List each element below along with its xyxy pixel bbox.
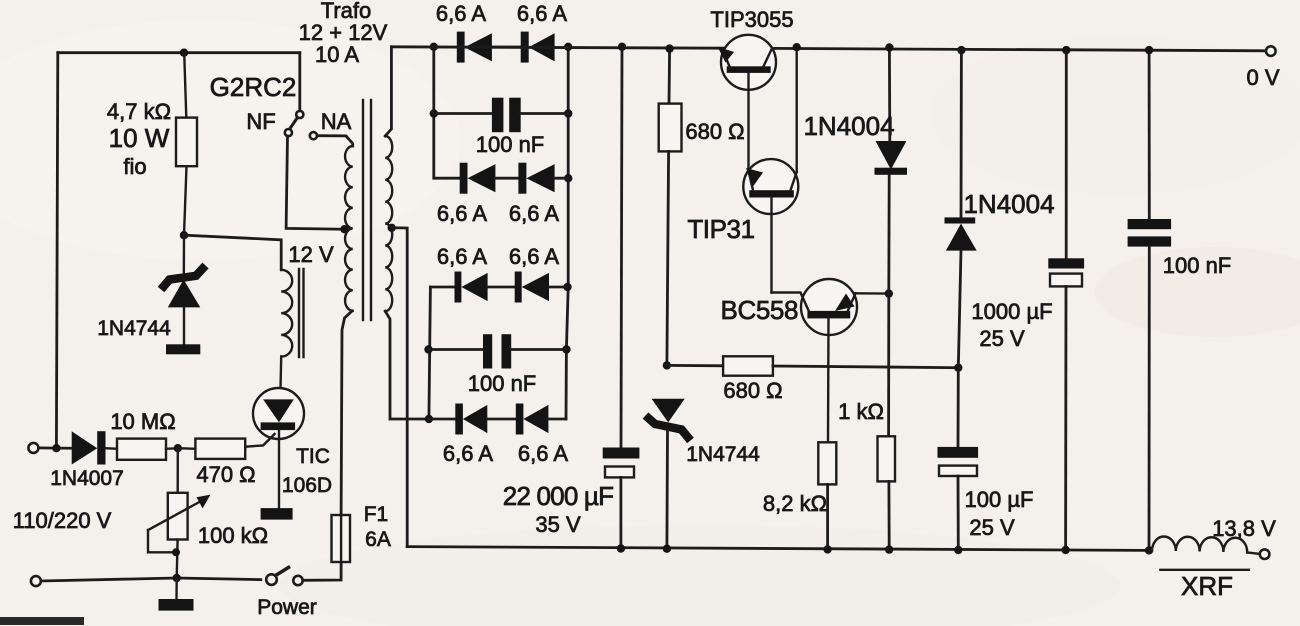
wire: secondary bottom to rectifier row 4 — [385, 311, 429, 419]
diode row 3 left: D7 6,6 A — [430, 272, 487, 303]
node: junction R2 / R3 / pot — [174, 444, 182, 452]
svg-text:1 kΩ: 1 kΩ — [838, 399, 884, 424]
relay NF contact — [285, 129, 292, 136]
value label C3: 22 000 uF / 35 V — [503, 481, 613, 537]
node: R6 on bottom rail — [885, 545, 893, 553]
svg-text:12 V: 12 V — [288, 242, 334, 267]
svg-text:1N4004: 1N4004 — [803, 111, 894, 141]
svg-text:10 W: 10 W — [109, 123, 170, 153]
node: secondary centre tap — [388, 224, 396, 232]
node: pot bottom on rail — [173, 574, 181, 582]
resistor R3 470 Ohm — [178, 439, 245, 459]
node: BC558 emitter / 1k / 1N4004 junction — [885, 289, 893, 297]
diode D1 1N4007 — [72, 431, 117, 464]
wire row 3 mid — [488, 286, 515, 289]
wire: 0V top rail (left part up to TIP3055) — [391, 47, 724, 48]
wire row 2 right end — [555, 177, 569, 180]
wire row 4 mid — [487, 418, 516, 421]
transformer T1 core — [363, 100, 371, 320]
capacitor C3 22 000 uF 35 V — [603, 43, 640, 553]
svg-text:G2RC2: G2RC2 — [210, 72, 297, 102]
label Q1: TIC 106D — [282, 445, 332, 497]
diode row 2 left: D5 6,6 A — [460, 163, 496, 194]
wire: rectifier right bus rows 1-4 — [566, 47, 568, 419]
svg-text:680 Ω: 680 Ω — [723, 378, 782, 403]
node: right bus at row 3 — [563, 283, 571, 291]
svg-text:1N4004: 1N4004 — [963, 189, 1054, 219]
transistor Q2 TIP3055 — [718, 35, 777, 170]
wire: rectifier left bus rows 3-4 — [429, 287, 431, 419]
node: right bus at row 2 — [564, 174, 572, 182]
resistor R4 680 Ohm (vertical) — [659, 44, 682, 365]
svg-text:22 000 µF: 22 000 µF — [503, 481, 613, 511]
svg-text:6,6 A: 6,6 A — [509, 244, 559, 269]
svg-text:110/220 V: 110/220 V — [13, 508, 112, 533]
relay NA contact — [310, 132, 317, 139]
resistor R7 8,2 kOhm — [818, 442, 836, 549]
svg-text:1000 µF: 1000 µF — [971, 299, 1052, 324]
svg-text:F1: F1 — [364, 503, 389, 526]
wire: bottom rail left — [41, 578, 261, 581]
relay lever arm — [290, 118, 298, 130]
wire: left vertical from top rail to mains input row — [56, 53, 57, 449]
svg-text:680 Ω: 680 Ω — [685, 119, 744, 144]
fuse F1 6A — [332, 311, 353, 562]
ground bar under SCR cathode — [261, 508, 293, 519]
svg-text:6,6 A: 6,6 A — [443, 441, 493, 466]
transistor Q4 BC558 — [772, 279, 889, 442]
svg-text:6A: 6A — [365, 528, 391, 551]
wire: NF contact down to primary tap — [286, 136, 344, 229]
svg-text:fio: fio — [123, 154, 146, 179]
resistor R2 10 MOhm — [117, 439, 178, 460]
node: left bus on 0V rail — [430, 43, 438, 51]
capacitor C5 100 uF 25 V — [938, 368, 979, 555]
svg-text:4,7 kΩ: 4,7 kΩ — [107, 99, 171, 124]
capacitor C6 100 nF (output) — [1128, 46, 1172, 555]
resistor R5 680 Ohm (horizontal) — [667, 356, 958, 375]
svg-text:470 Ω: 470 Ω — [196, 462, 255, 487]
svg-text:1N4744: 1N4744 — [686, 443, 760, 466]
svg-text:NA: NA — [321, 109, 352, 134]
wire: 13,8V bottom rail — [407, 547, 1146, 551]
value label C4: 1000 uF / 25 V — [971, 299, 1052, 351]
inductor L1 XRF — [1152, 537, 1259, 570]
svg-text:Power: Power — [257, 596, 317, 619]
svg-text:1N4744: 1N4744 — [97, 317, 171, 340]
wire: centre tap down to output common rail — [392, 228, 408, 547]
node: R5 wire / 100uF line junction — [954, 364, 962, 372]
wire row 3 right end — [549, 286, 568, 289]
resistor R1 4,7 kOhm 10 W — [176, 53, 197, 236]
svg-text:100 nF: 100 nF — [468, 371, 537, 396]
capacitor C1 100 nF across rows 1-2 — [434, 98, 568, 133]
zener diode D13 1N4744 (right) — [646, 399, 691, 549]
scan edge artifact bottom-left — [0, 617, 84, 625]
zener diode D2 1N4744 (left) — [161, 235, 206, 344]
diode row 1 left: D3 6,6 A — [457, 32, 492, 63]
input terminal lower — [31, 576, 41, 586]
node: D13 on bottom rail — [663, 545, 671, 553]
svg-text:6,6 A: 6,6 A — [436, 1, 486, 26]
node: R7 on bottom rail — [823, 545, 831, 553]
svg-text:1N4007: 1N4007 — [50, 467, 124, 490]
svg-text:100 kΩ: 100 kΩ — [198, 523, 268, 548]
transformer T1 primary winding — [345, 146, 353, 311]
wire: rectifier left bus rows 1-2 — [434, 47, 460, 178]
diode D12 1N4004 (lower, on 100uF line) — [945, 46, 977, 368]
value label C5: 100 uF / 25 V — [965, 487, 1034, 540]
svg-text:100 µF: 100 µF — [965, 487, 1034, 512]
svg-text:25 V: 25 V — [969, 515, 1015, 540]
label transformer: Trafo / 12 + 12V / 10 A — [299, 0, 388, 67]
svg-text:6,6 A: 6,6 A — [437, 244, 487, 269]
wire: relay coil to SCR anode — [279, 357, 282, 389]
node: junction left vertical / input row — [52, 444, 60, 452]
svg-text:NF: NF — [246, 109, 275, 134]
relay contact pivot circle — [296, 111, 303, 118]
node: Q3 collector on 0V rail — [793, 43, 801, 51]
value label R1: 4,7 kOhm / 10 W / fio — [107, 99, 171, 179]
potentiometer P1 100 kOhm — [148, 448, 211, 578]
diode row 4 left: D9 6,6 A — [429, 404, 487, 435]
diode row 4 right: D10 6,6 A — [516, 404, 549, 435]
diode row 1 right: D4 6,6 A — [521, 32, 555, 63]
node: left bus at C2 branch — [424, 345, 432, 353]
label F1 / 6A — [364, 503, 391, 551]
ground bar below pot node — [159, 578, 194, 611]
svg-text:35 V: 35 V — [535, 512, 581, 537]
node: right bus at C1 branch — [564, 109, 572, 117]
svg-text:10 MΩ: 10 MΩ — [110, 409, 175, 434]
svg-text:TIC: TIC — [296, 445, 330, 468]
wire: top-left rail from left corner to relay drop — [58, 51, 300, 54]
relay coil (12 V) — [281, 269, 303, 357]
svg-text:TIP31: TIP31 — [687, 214, 754, 244]
svg-text:106D: 106D — [282, 474, 332, 497]
diode D11 1N4004 (upper) — [875, 43, 908, 293]
resistor R6 1 kOhm — [878, 294, 896, 550]
wire: top rail down to relay pivot — [298, 53, 301, 111]
svg-text:6,6 A: 6,6 A — [517, 1, 567, 26]
svg-text:6,6 A: 6,6 A — [509, 201, 559, 226]
svg-text:13,8 V: 13,8 V — [1212, 516, 1276, 541]
SCR Q1 TIC106D — [245, 388, 304, 508]
svg-text:10 A: 10 A — [315, 42, 359, 67]
wire: 0V top rail (right part) — [772, 48, 1266, 50]
node: junction R1 / zener / relay coil — [180, 231, 188, 239]
wire: NA contact to primary top — [317, 136, 353, 146]
node: R4 / zener D13 / R5 wire — [663, 361, 671, 369]
node: pot wiper tie — [172, 548, 180, 556]
svg-text:6,6 A: 6,6 A — [437, 201, 487, 226]
ground bar under zener D2 — [166, 344, 200, 354]
svg-text:6,6 A: 6,6 A — [518, 441, 568, 466]
wire row 2 mid — [495, 177, 518, 180]
svg-text:100 nF: 100 nF — [476, 132, 545, 157]
svg-text:TIP3055: TIP3055 — [710, 7, 793, 32]
node: left bus at row 4 / secondary bottom — [425, 415, 433, 423]
wire row 4 right end up to bus — [548, 418, 566, 421]
switch S1 Power — [266, 562, 341, 585]
svg-text:25 V: 25 V — [979, 326, 1025, 351]
capacitor C2 100 nF across rows 3-4 — [429, 334, 567, 368]
svg-text:XRF: XRF — [1181, 571, 1233, 601]
svg-text:0 V: 0 V — [1246, 65, 1279, 90]
svg-text:8,2 kΩ: 8,2 kΩ — [763, 491, 827, 516]
transistor Q3 TIP31 — [743, 47, 798, 292]
node: tap on primary winding — [340, 225, 348, 233]
output terminal 13,8 V — [1260, 549, 1270, 559]
output terminal 0 V — [1266, 46, 1276, 56]
diode row 3 right: D8 6,6 A — [515, 272, 549, 303]
wire: secondary top to 0V rail — [385, 47, 391, 136]
node: right bus on 0V rail — [564, 43, 572, 51]
transformer T1 secondary winding — [385, 136, 392, 311]
svg-text:100 nF: 100 nF — [1163, 253, 1232, 278]
node: left bus at capacitor C1 branch — [430, 109, 438, 117]
capacitor C4 1000 uF 25 V — [1048, 46, 1084, 554]
wire row 1 mid — [492, 46, 521, 49]
diode row 2 right: D6 6,6 A — [518, 163, 554, 194]
wire: terminal to diode D1 — [39, 446, 72, 449]
input terminal upper (110/220 V) — [28, 443, 38, 453]
svg-text:BC558: BC558 — [721, 295, 799, 325]
node: right bus at C2 branch — [562, 345, 570, 353]
wire: from node to relay coil top — [184, 235, 281, 270]
node: junction top of R1 — [180, 49, 188, 57]
